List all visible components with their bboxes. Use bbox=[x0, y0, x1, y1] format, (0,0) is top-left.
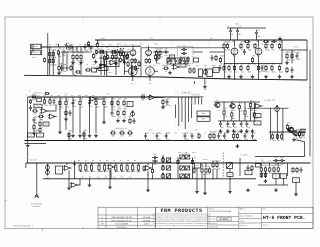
capacitor C9 with labels bbox=[181, 45, 187, 54]
box bias RV3 bbox=[194, 58, 199, 62]
junction bbox=[212, 162, 213, 163]
transistor Q2 bbox=[229, 104, 235, 109]
net HT1 bbox=[150, 37, 153, 40]
junction bbox=[234, 39, 235, 40]
resistor R130 with labels bbox=[151, 168, 153, 174]
junction bbox=[147, 174, 148, 175]
junction bbox=[129, 116, 130, 117]
svg-text:0V: 0V bbox=[100, 64, 102, 66]
capacitor C41 with labels bbox=[131, 65, 134, 71]
wire stub below rail bbox=[194, 81, 196, 84]
resistor R24 with labels bbox=[122, 51, 124, 57]
svg-text:C16: C16 bbox=[54, 97, 57, 100]
stub 178d bbox=[177, 158, 179, 163]
junction on ground rail bbox=[107, 76, 108, 77]
junction bbox=[244, 140, 245, 141]
op-amp U2 bbox=[172, 65, 181, 70]
box D3 bbox=[301, 129, 305, 133]
resistor R89 with labels bbox=[236, 131, 241, 142]
svg-text:47k: 47k bbox=[121, 135, 124, 138]
rev header date bbox=[144, 223, 150, 226]
svg-text:100k: 100k bbox=[252, 63, 256, 66]
junction bbox=[281, 55, 282, 56]
svg-text:R88: R88 bbox=[197, 132, 200, 134]
label C2b bbox=[55, 43, 57, 46]
resistor R23 with labels bbox=[119, 51, 121, 57]
capacitor C42 with labels bbox=[211, 55, 214, 61]
resistor R120 with labels bbox=[127, 61, 129, 67]
svg-text:68k: 68k bbox=[81, 60, 84, 63]
resistor R110 with labels bbox=[216, 160, 221, 171]
wire U1 in drop bbox=[99, 64, 101, 68]
svg-text:R63: R63 bbox=[34, 122, 37, 125]
wire V1b anode out bbox=[153, 51, 168, 53]
junction bbox=[51, 162, 52, 163]
ground mid 2 bbox=[122, 119, 126, 123]
svg-text:33k: 33k bbox=[227, 49, 230, 52]
resistor R124 with labels bbox=[193, 67, 195, 73]
wire gnd drop c bbox=[109, 169, 111, 185]
svg-text:R89: R89 bbox=[237, 131, 240, 134]
label HT BUS TP bbox=[192, 93, 200, 96]
svg-text:10k: 10k bbox=[251, 110, 253, 112]
wire 124 drop bbox=[124, 59, 126, 75]
field size bbox=[263, 223, 269, 226]
svg-text:R68: R68 bbox=[124, 108, 127, 111]
svg-text:33k: 33k bbox=[202, 173, 205, 176]
resistor R139 with labels bbox=[292, 167, 294, 173]
resistor R71 with labels bbox=[162, 97, 166, 108]
label R14b bbox=[119, 43, 122, 46]
resistor R98 with labels bbox=[98, 162, 103, 173]
stub s2a t bbox=[168, 162, 170, 164]
micro labels row2 bbox=[59, 100, 106, 102]
label PT1 bbox=[29, 90, 32, 93]
ground k4 bbox=[228, 190, 232, 194]
op-amp U1b bbox=[109, 60, 118, 65]
wire left bus to row4 bbox=[27, 148, 29, 163]
wire top HT rail bbox=[95, 39, 307, 41]
svg-text:R4: R4 bbox=[53, 56, 55, 59]
capacitor C38 with labels bbox=[273, 156, 279, 165]
label MAINS bbox=[33, 129, 39, 132]
capacitor C28 with labels bbox=[155, 132, 160, 141]
resistor R131 with labels bbox=[193, 167, 195, 173]
stub 210c bbox=[209, 139, 211, 141]
wire pin drop 3 bbox=[181, 105, 183, 123]
wire J1 to grid bbox=[42, 46, 48, 48]
op-amp U3a bbox=[40, 109, 49, 114]
svg-text:R55: R55 bbox=[59, 100, 62, 102]
wire C12 top bbox=[237, 27, 239, 29]
label TP3 bbox=[107, 93, 110, 96]
svg-text:8R: 8R bbox=[291, 52, 293, 54]
rev header ltr bbox=[100, 223, 104, 226]
svg-text:8k2: 8k2 bbox=[134, 160, 136, 162]
resistor R84 with labels bbox=[119, 129, 125, 138]
svg-text:R70: R70 bbox=[141, 93, 144, 96]
wire right bus vertical bbox=[309, 50, 311, 156]
wire gnd drop a bbox=[68, 171, 70, 187]
capacitor C12 with labels bbox=[236, 27, 241, 36]
label GND1 bbox=[32, 56, 36, 59]
junction bbox=[85, 178, 86, 179]
wire stub 81 bbox=[80, 47, 82, 52]
junction bbox=[30, 96, 31, 97]
svg-text:330: 330 bbox=[106, 160, 109, 162]
svg-text:C1: C1 bbox=[61, 49, 63, 51]
ground R lower bbox=[57, 71, 61, 75]
svg-text:1u: 1u bbox=[102, 60, 104, 63]
stub 104b bbox=[103, 106, 105, 120]
potentiometer VR4 volume bbox=[46, 169, 50, 175]
svg-text:R31: R31 bbox=[162, 65, 165, 67]
svg-text:R111: R111 bbox=[261, 161, 264, 163]
resistor R123 with labels bbox=[189, 67, 191, 73]
wire V1a anode bbox=[132, 46, 134, 50]
svg-text:1k: 1k bbox=[73, 60, 75, 63]
svg-text:C2: C2 bbox=[67, 42, 69, 45]
svg-text:C32: C32 bbox=[174, 132, 177, 134]
label TP9 bbox=[204, 88, 207, 91]
label TP6 bbox=[34, 92, 41, 95]
resistor R141 with labels bbox=[75, 71, 81, 73]
label HEATERS bbox=[115, 127, 128, 130]
box bias network bbox=[213, 68, 219, 73]
junction bbox=[59, 96, 60, 97]
svg-text:2k2: 2k2 bbox=[123, 171, 125, 173]
junction bbox=[272, 131, 273, 132]
ground below R6 bbox=[71, 61, 75, 65]
capacitor C34 with labels bbox=[251, 132, 256, 141]
junction bbox=[127, 178, 128, 179]
svg-text:R87: R87 bbox=[214, 131, 217, 134]
resistor R135 with labels bbox=[138, 61, 140, 67]
resistor R99 with labels bbox=[104, 162, 109, 173]
svg-text:470p: 470p bbox=[63, 44, 66, 46]
junction bbox=[33, 103, 34, 104]
op-amp U6 bbox=[254, 104, 263, 109]
micro labels row4 mid2 bbox=[80, 171, 140, 173]
wire pin drop 6 bbox=[191, 105, 193, 119]
resistor R48 with labels bbox=[265, 63, 269, 74]
junction bbox=[223, 101, 224, 102]
resistor R74 with labels bbox=[238, 102, 243, 113]
resistor R83 with labels bbox=[110, 129, 116, 138]
ground 80 bbox=[78, 134, 82, 138]
svg-text:C36: C36 bbox=[153, 153, 156, 156]
switch S4a bbox=[180, 166, 185, 170]
wire top cap link bbox=[227, 27, 266, 29]
stub 206d bbox=[205, 163, 207, 167]
switch S3a bbox=[180, 155, 185, 159]
resistor R65 with labels bbox=[111, 98, 116, 109]
capacitor C17 with labels bbox=[72, 99, 77, 108]
box RV1 trim bbox=[169, 55, 175, 59]
junction bbox=[145, 140, 146, 141]
svg-text:R16: R16 bbox=[71, 64, 74, 66]
svg-text:68k: 68k bbox=[84, 137, 87, 140]
svg-text:R103: R103 bbox=[132, 162, 136, 165]
micro labels row4 bottom bbox=[81, 177, 132, 179]
resistor R114 with labels bbox=[273, 164, 278, 175]
svg-text:1k: 1k bbox=[282, 139, 284, 142]
svg-text:R13: R13 bbox=[120, 49, 123, 51]
wire V1 cathode pin bbox=[132, 76, 134, 81]
stub 254 bbox=[253, 102, 255, 111]
box D2 bridge bbox=[37, 98, 42, 102]
resistor R103 with labels bbox=[132, 162, 137, 173]
micro labels pa mid bbox=[285, 52, 299, 54]
svg-text:220n: 220n bbox=[112, 115, 116, 118]
resistor R62 with labels bbox=[103, 98, 108, 109]
resistor R86 with labels bbox=[209, 131, 214, 142]
capacitor C14 with labels bbox=[261, 64, 266, 73]
svg-text:1k: 1k bbox=[165, 70, 167, 73]
svg-text:R13: R13 bbox=[104, 53, 107, 56]
HT BUS pin labels bbox=[175, 93, 198, 95]
transistor Q5 bbox=[287, 128, 293, 133]
svg-text:22n: 22n bbox=[281, 162, 284, 165]
resistor R107 with labels bbox=[201, 165, 206, 176]
wire row2 gnd bus bbox=[218, 120, 256, 122]
svg-text:1n: 1n bbox=[114, 49, 116, 51]
svg-text:R2: R2 bbox=[50, 56, 52, 59]
stub 217d bbox=[216, 161, 218, 163]
svg-text:1u: 1u bbox=[225, 138, 227, 141]
wire left section edge bbox=[47, 33, 49, 76]
junction bbox=[234, 63, 235, 64]
svg-text:R48: R48 bbox=[255, 66, 258, 68]
junction bbox=[239, 101, 240, 102]
stub 50 bbox=[49, 97, 51, 100]
capacitor C45 with labels bbox=[291, 67, 294, 73]
stub 80b bbox=[79, 106, 81, 133]
junction bbox=[121, 162, 122, 163]
valve envelope V2 bbox=[146, 65, 155, 77]
capacitor C18 with labels bbox=[88, 99, 93, 108]
svg-text:C18: C18 bbox=[73, 100, 76, 102]
field checked by label bbox=[209, 222, 218, 225]
svg-text:820R: 820R bbox=[212, 65, 215, 67]
junction bbox=[271, 63, 272, 64]
svg-text:TP6: TP6 bbox=[64, 95, 67, 97]
title block frame bbox=[156, 207, 314, 228]
svg-text:10n: 10n bbox=[221, 126, 224, 129]
connector J2 pin marks bbox=[32, 51, 41, 54]
junction bbox=[166, 140, 167, 141]
resistor R77 with labels bbox=[253, 109, 258, 120]
net +325V bbox=[100, 37, 106, 40]
stub 245b bbox=[244, 116, 246, 121]
svg-text:R64: R64 bbox=[40, 119, 43, 122]
svg-text:1k: 1k bbox=[235, 71, 237, 74]
resistor R17 with labels bbox=[126, 51, 130, 62]
label LINK bbox=[33, 205, 42, 208]
svg-text:R113: R113 bbox=[275, 161, 278, 163]
wire bal rail bbox=[248, 107, 289, 109]
junction bbox=[247, 63, 248, 64]
resistor R2 with labels bbox=[49, 56, 54, 67]
svg-text:C20: C20 bbox=[112, 109, 115, 112]
resistor R6 with labels bbox=[67, 43, 73, 52]
stub 245 bbox=[244, 102, 246, 110]
resistor R105 with labels bbox=[177, 157, 182, 168]
svg-text:10.10.08: 10.10.08 bbox=[143, 216, 150, 219]
resistor R142 with labels bbox=[179, 59, 181, 64]
wire r89 top link bbox=[269, 131, 290, 133]
resistor R113 with labels bbox=[269, 164, 274, 175]
svg-text:22u: 22u bbox=[51, 95, 53, 97]
resistor R30 with labels bbox=[163, 64, 169, 73]
capacitor C47 with labels bbox=[191, 133, 194, 139]
junction bbox=[265, 39, 266, 40]
capacitor C53 with labels bbox=[174, 58, 177, 64]
wire row4 top rail bbox=[26, 162, 310, 164]
stub 261d bbox=[260, 163, 262, 166]
wire pin drop 2 bbox=[178, 105, 180, 127]
svg-text:C18: C18 bbox=[92, 95, 95, 97]
wire vol stub bbox=[25, 163, 27, 168]
junction bbox=[72, 96, 73, 97]
svg-text:4k7: 4k7 bbox=[225, 110, 227, 112]
ground mid bbox=[116, 119, 120, 123]
label CH SW bbox=[202, 158, 208, 161]
svg-text:470p: 470p bbox=[167, 104, 171, 107]
svg-text:MID: MID bbox=[186, 152, 188, 154]
connector J1 pin marks bbox=[32, 45, 41, 48]
svg-text:REVISIONS: REVISIONS bbox=[117, 226, 128, 229]
label HT BAL TP2 bbox=[265, 99, 275, 102]
value smudge labels row1 bbox=[49, 44, 134, 46]
svg-text:R58: R58 bbox=[88, 100, 91, 102]
capacitor C30 with labels bbox=[184, 132, 189, 141]
svg-text:47u: 47u bbox=[167, 132, 169, 134]
stub 202d2 bbox=[201, 175, 203, 179]
stub 60b bbox=[59, 106, 61, 110]
svg-text:C9: C9 bbox=[183, 45, 185, 48]
svg-text:390: 390 bbox=[129, 135, 132, 138]
micro labels row1 sub bbox=[57, 64, 102, 66]
box filter block bbox=[167, 58, 188, 64]
resistor R126 with labels bbox=[286, 67, 288, 73]
filename note bbox=[14, 225, 34, 228]
box resistor network RN2 bbox=[197, 117, 210, 122]
label VOL bbox=[30, 159, 38, 162]
wire PI rail bbox=[227, 39, 266, 41]
svg-text:10u: 10u bbox=[64, 64, 66, 66]
svg-text:C4: C4 bbox=[87, 44, 89, 46]
capacitor C13 with labels bbox=[255, 29, 260, 38]
svg-text:10k: 10k bbox=[78, 160, 81, 162]
svg-text:C38: C38 bbox=[129, 177, 132, 179]
micro labels pa grid bbox=[225, 66, 272, 68]
svg-text:B. REIA: B. REIA bbox=[220, 218, 229, 221]
capacitor C57 with labels bbox=[122, 57, 125, 63]
resistor R15 with labels bbox=[115, 52, 120, 63]
svg-text:10n: 10n bbox=[240, 66, 243, 68]
resistor R11 with labels bbox=[93, 53, 95, 59]
wire ground return rail full width bbox=[24, 75, 307, 80]
label OP TX bbox=[293, 46, 299, 49]
switch S2b bbox=[166, 166, 170, 170]
resistor R72 with labels bbox=[223, 107, 227, 118]
stub 192d2 bbox=[192, 166, 194, 179]
svg-text:2k2: 2k2 bbox=[118, 116, 121, 119]
stub 224 bbox=[223, 102, 225, 110]
micro labels row3 bbox=[145, 132, 251, 134]
micro labels row4 top bbox=[78, 160, 136, 162]
svg-text:10n: 10n bbox=[154, 163, 157, 166]
svg-text:R2: R2 bbox=[48, 49, 50, 51]
svg-text:C28: C28 bbox=[145, 132, 148, 134]
svg-text:47k: 47k bbox=[104, 61, 107, 64]
junction bbox=[49, 47, 50, 48]
wire V3 cathode drop bbox=[234, 55, 236, 80]
stub 74d2 bbox=[74, 167, 76, 179]
junction bbox=[277, 131, 278, 132]
svg-text:47k: 47k bbox=[80, 106, 83, 109]
label V1B bbox=[154, 42, 158, 45]
resistor R16 with labels bbox=[118, 48, 124, 57]
resistor R96 with labels bbox=[85, 162, 89, 173]
svg-text:100k: 100k bbox=[144, 65, 147, 67]
capacitor C52 with labels bbox=[170, 58, 173, 64]
resistor R127 with labels bbox=[65, 110, 67, 116]
wire 58 stub bbox=[58, 44, 60, 47]
svg-text:1k: 1k bbox=[124, 116, 126, 119]
junction bbox=[201, 162, 202, 163]
svg-text:R86: R86 bbox=[182, 132, 185, 134]
resistor R102 with labels bbox=[126, 162, 131, 173]
op-amp U3b bbox=[48, 114, 57, 119]
micro labels row4 right bbox=[255, 161, 284, 163]
junction bbox=[59, 96, 60, 97]
rev header revisions bbox=[117, 226, 128, 229]
label V3 bbox=[232, 40, 234, 43]
resistor R44 with labels bbox=[233, 63, 237, 74]
resistor R73 with labels bbox=[231, 109, 235, 120]
resistor R138 with labels bbox=[129, 118, 131, 124]
label FX SEND bbox=[241, 154, 249, 157]
resistor R21 with labels bbox=[148, 58, 150, 64]
wire stub 73 bbox=[72, 47, 74, 52]
svg-text:HT-5 FRONT PCB.: HT-5 FRONT PCB. bbox=[263, 215, 306, 221]
capacitor C40 with labels bbox=[66, 65, 69, 71]
ground driver bbox=[203, 85, 207, 89]
label TP3 0V bbox=[107, 71, 112, 74]
ground top ps bbox=[278, 37, 282, 41]
box REG2 bbox=[43, 122, 49, 126]
junction bbox=[98, 178, 99, 179]
box RLY1 bbox=[127, 102, 133, 107]
capacitor C39 with labels bbox=[279, 156, 285, 165]
stub k4 gnd bbox=[229, 177, 231, 190]
label EARLIER bbox=[31, 203, 42, 206]
pot gang dashed link bbox=[222, 153, 224, 179]
resistor R1 with labels bbox=[49, 49, 54, 60]
resistor R75 with labels bbox=[244, 107, 249, 118]
wire U5 out bbox=[155, 97, 163, 99]
ground V1 cathode bbox=[99, 63, 103, 67]
resistor R97 with labels bbox=[90, 162, 94, 173]
svg-text:FBM PRODUCTS: FBM PRODUCTS bbox=[160, 208, 202, 214]
capacitor C44 with labels bbox=[243, 49, 246, 55]
svg-text:68k: 68k bbox=[81, 49, 83, 51]
svg-text:820: 820 bbox=[94, 44, 97, 46]
svg-text:R62 CHANGED TO 390: R62 CHANGED TO 390 bbox=[112, 216, 132, 219]
resistor R54 with labels bbox=[44, 96, 48, 107]
